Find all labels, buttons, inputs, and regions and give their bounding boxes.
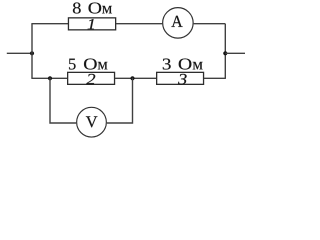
- wire: left vertical bus: [31, 24, 33, 79]
- label: 3 Ом (value of R3): [163, 59, 203, 70]
- wire: resistor 1 to ammeter: [116, 23, 162, 25]
- label: A (ammeter letter): [171, 16, 182, 27]
- wire: top branch, corner to resistor 1: [31, 23, 68, 25]
- ammeter U1 circle: [163, 8, 194, 39]
- wire: resistor 2 to resistor 3: [115, 77, 156, 79]
- label: 2 (designator inside R2): [86, 74, 95, 84]
- label: 8 Ом (value of R1): [73, 2, 112, 13]
- wire: voltmeter right rise: [107, 78, 133, 123]
- node: right junction dot: [223, 51, 227, 55]
- node: voltmeter tap left dot: [48, 76, 52, 80]
- voltmeter U2 circle: [77, 107, 107, 137]
- resistor R3 box: [157, 72, 204, 84]
- label: 5 Ом (value of R2): [69, 59, 107, 70]
- wire: left lead: [7, 52, 32, 54]
- node: voltmeter tap right dot: [130, 76, 134, 80]
- wire: ammeter to top-right corner: [194, 23, 226, 25]
- resistor R2 box: [68, 72, 115, 84]
- label: V (voltmeter letter): [86, 116, 98, 127]
- wire: right vertical bus: [224, 24, 226, 79]
- label: 3 (designator inside R3): [178, 74, 187, 85]
- wire: right lead: [225, 52, 245, 54]
- label: 1 (designator inside R1): [88, 19, 94, 29]
- wire: voltmeter left drop: [50, 78, 76, 123]
- wire: middle branch, corner to resistor 2: [31, 77, 67, 79]
- wire: resistor 3 to right corner: [204, 77, 226, 79]
- node: left junction dot: [30, 51, 34, 55]
- resistor R1 box: [68, 18, 115, 30]
